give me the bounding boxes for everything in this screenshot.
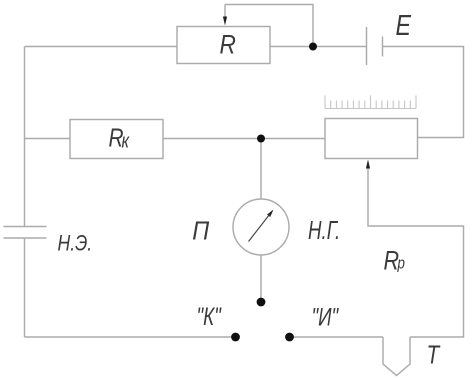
- svg-text:E: E: [396, 9, 412, 42]
- svg-text:"К": "К": [197, 302, 222, 330]
- svg-text:R: R: [220, 30, 236, 60]
- svg-text:к: к: [122, 130, 131, 152]
- svg-text:П: П: [192, 217, 209, 245]
- svg-text:"И": "И": [312, 303, 340, 331]
- svg-text:Н.Э.: Н.Э.: [58, 232, 93, 256]
- svg-text:Т: Т: [427, 340, 441, 369]
- svg-text:p: p: [397, 254, 405, 273]
- svg-text:Н.Г.: Н.Г.: [308, 215, 340, 245]
